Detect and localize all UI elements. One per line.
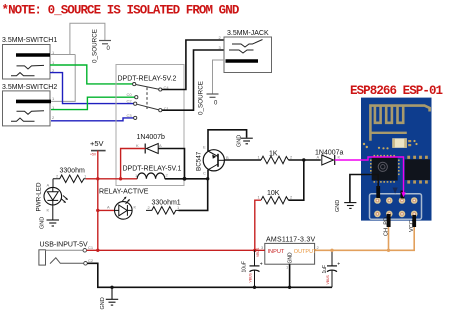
power flag +5V [90,139,106,151]
svg-text:E: E [203,145,206,150]
junction orange [387,249,390,252]
net 0_SOURCE symbol 2 [198,81,219,115]
wire sleeve switch1 to 0_SOURCE [50,54,75,56]
svg-text:+: + [260,262,263,268]
svg-text:*NOTE: 0_SOURCE IS ISOLATED FR: *NOTE: 0_SOURCE IS ISOLATED FROM GND [2,4,240,18]
svg-text:PWR-LED: PWR-LED [36,182,43,211]
relay mechanical link dashed [146,88,148,110]
svg-text:C: C [203,171,206,176]
wire collector down [207,170,209,179]
relay contact C0 [127,92,138,99]
svg-text:OUTPUT: OUTPUT [294,249,317,255]
wire blue switch2 to relay C3 [51,118,134,121]
wire +5V rail red vertical [97,151,99,251]
svg-text:ESP8266 ESP-01: ESP8266 ESP-01 [350,84,443,98]
svg-text:3.5MM-JACK: 3.5MM-JACK [227,30,269,37]
connector J2 3.5MM-SWITCH2 [2,84,57,126]
pin stub VCC [412,215,416,227]
wire LED to gnd [52,205,54,220]
svg-text:VBUS: VBUS [256,247,260,257]
svg-text:C0: C0 [127,92,133,97]
relay coil L1 [135,173,169,179]
relay contact C3 [127,113,137,120]
wire diode A down [158,149,184,179]
ground GND1 [40,217,60,229]
regulator U3 AMS1117-3.3V [261,237,320,270]
junction 1K/10K [302,158,305,161]
svg-text:GND: GND [237,135,243,147]
misc gold dots [363,143,365,145]
LED D2 RELAY-ACTIVE [114,197,137,220]
wire R2 to transistor collector node [179,179,208,211]
resonator component [392,138,407,148]
wire 10K branch [289,160,304,200]
svg-text:A: A [159,143,162,148]
junction 10K red [253,249,256,252]
svg-text:+5V: +5V [90,153,97,157]
relay K1 box [116,65,184,186]
chip U2 flash [405,159,430,180]
connector J1 3.5MM-SWITCH1 [2,37,57,79]
svg-text:K: K [136,143,139,148]
wire R1 left to LED [52,179,54,187]
wire emitter to GND [208,130,247,151]
wire +5V to diode K [98,149,145,179]
magenta arrow [401,192,405,197]
resistor R4 10K [258,190,294,204]
junction diode-coil [183,177,187,181]
svg-text:A: A [317,155,320,160]
wire orange CH_PD down [388,227,390,250]
svg-text:GND: GND [335,200,341,212]
svg-text:3.5MM-SWITCH2: 3.5MM-SWITCH2 [2,84,57,91]
resistor R1 330ohm [53,168,87,183]
antenna trace [370,106,429,141]
ground GND4 [100,287,118,309]
svg-text:0_SOURCE: 0_SOURCE [198,81,205,115]
relay pole 2 [127,99,170,112]
wire ESP gnd pin to GND3 [350,175,378,203]
wire R3 to diode A [289,159,321,161]
ground GND3 near ESP [335,200,356,212]
wire coil pin2 to collector [165,178,208,180]
connector J3 3.5MM-JACK [219,30,272,73]
wire base to R3 [224,159,261,161]
svg-text:0_SOURCE: 0_SOURCE [92,29,99,63]
svg-text:RELAY-ACTIVE: RELAY-ACTIVE [99,189,149,196]
wire relay C1 to jack pin3 [162,50,224,110]
pin stub GND [376,186,380,198]
wire to LED D2 anode [98,209,114,211]
svg-text:GND: GND [40,217,46,229]
wire green switch1 to relay common [50,65,133,84]
svg-text:10K: 10K [267,190,280,197]
junction relay-active tap [96,209,99,212]
ground GND2 [237,135,253,147]
wire green switch2 to relay C0 [51,97,135,109]
svg-text:10uF: 10uF [242,261,248,272]
capacitor C1 10uF [242,250,263,287]
connector J4 USB-INPUT-5V [39,241,94,265]
svg-text:+5V: +5V [90,139,104,148]
wire blue switch1 to relay C2 [50,73,134,104]
svg-text:A: A [47,183,50,188]
svg-text:VBUS: VBUS [249,273,253,283]
svg-text:C2: C2 [88,258,94,263]
relay pole 1 [133,83,170,92]
junction [96,177,99,180]
pin stub CH_PD [387,214,391,227]
diode D3 1N4007b [136,134,165,153]
svg-text:AMS1117-3.3V: AMS1117-3.3V [266,237,316,244]
svg-text:INPUT: INPUT [268,249,285,255]
wire orange VCC down [315,227,415,250]
svg-text:VBUS: VBUS [326,275,330,285]
junction usb 5V [96,249,99,252]
svg-text:C1: C1 [88,245,94,250]
svg-text:330ohm: 330ohm [60,168,85,175]
LED D1 PWR-LED [36,182,68,212]
junction coil tap [119,177,122,180]
resistor R3 1K [258,151,294,164]
svg-text:GND: GND [100,297,106,309]
pin pads row1 [374,197,417,204]
svg-text:DPDT-RELAY-5V.2: DPDT-RELAY-5V.2 [118,76,177,83]
wire red to coil pin1 [121,178,138,180]
diode D4 1N4007a [315,150,344,166]
header frame [370,194,422,220]
pcb board [361,98,432,221]
svg-text:BC547: BC547 [196,151,203,171]
wire sleeve riser [70,23,105,54]
svg-text:3.5MM-SWITCH1: 3.5MM-SWITCH1 [2,37,57,44]
chip U1 ESP8266EX [372,157,398,181]
wire magenta diode K to ESP GPIO [335,157,404,193]
pin pads row2 [374,211,417,218]
svg-text:K: K [47,208,50,213]
junction ams gnd [288,286,291,289]
ESP8266 ESP-01 module [350,84,443,236]
net 0_SOURCE symbol 1 [92,29,112,63]
antenna lower arm [370,132,406,134]
svg-text:1N4007b: 1N4007b [137,134,166,141]
transistor Q1 BC547 [196,145,230,176]
svg-text:B: B [226,155,229,160]
svg-text:+: + [337,262,340,268]
pin stub gpio [401,191,405,199]
wire sleeve switch2 [51,55,75,102]
wire relay C4 to jack pin2 [162,40,224,90]
svg-text:K: K [338,155,341,160]
wire red USB to AMS input [87,249,265,251]
svg-text:DPDT-RELAY-5V.1: DPDT-RELAY-5V.1 [123,166,182,173]
wire AMS gnd down [289,264,291,287]
svg-text:A: A [107,205,110,210]
capacitor C2 1uF [322,250,340,287]
junction cap2 orange [330,249,333,252]
wire 10K to input rail red [255,200,261,250]
junction collector [206,177,209,180]
wire jack sleeve to 0_SOURCE [213,60,225,94]
svg-text:USB-INPUT-5V: USB-INPUT-5V [40,241,89,248]
wire R1 to +5V rail [86,178,98,180]
svg-text:C3: C3 [127,113,133,118]
resistor R2 330ohm1 [146,200,181,215]
junction cap1 gnd [253,286,256,289]
svg-text:GND: GND [288,252,294,264]
wire black USB gnd [87,263,332,287]
junction gnd tap [110,286,113,289]
svg-text:K: K [134,205,137,210]
svg-text:C2: C2 [127,99,133,104]
pin stub arrow rx [393,188,398,194]
